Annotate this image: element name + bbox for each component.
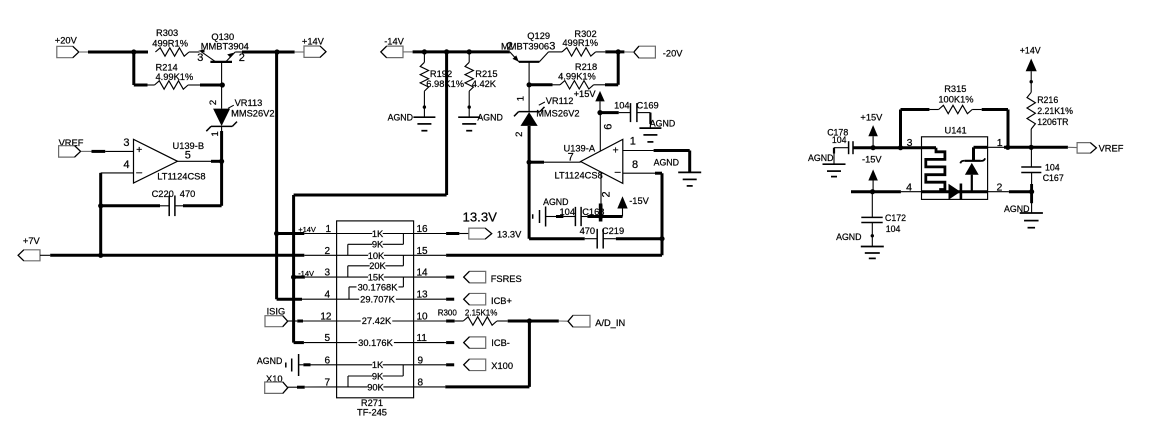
svg-text:MMS26V2: MMS26V2: [231, 108, 274, 118]
svg-text:AGND: AGND: [388, 113, 413, 123]
svg-text:AGND: AGND: [808, 153, 833, 163]
svg-text:13.3V: 13.3V: [497, 230, 522, 240]
svg-text:470: 470: [180, 189, 196, 199]
svg-text:1: 1: [516, 96, 527, 101]
svg-text:C172: C172: [885, 213, 906, 223]
svg-text:2: 2: [507, 41, 513, 53]
svg-text:15K: 15K: [368, 272, 385, 282]
svg-text:2: 2: [601, 191, 613, 197]
svg-text:30.1768K: 30.1768K: [358, 282, 399, 292]
svg-text:-14V: -14V: [384, 36, 404, 46]
svg-text:C220: C220: [152, 189, 174, 199]
svg-text:499R1%: 499R1%: [152, 38, 188, 48]
svg-text:R218: R218: [575, 62, 597, 72]
svg-text:104: 104: [886, 224, 901, 234]
svg-text:+: +: [136, 144, 142, 156]
svg-text:3: 3: [549, 41, 555, 53]
svg-text:–: –: [136, 166, 142, 178]
svg-text:+15V: +15V: [860, 113, 883, 123]
svg-text:+7V: +7V: [23, 236, 41, 246]
svg-text:R303: R303: [156, 28, 178, 38]
svg-text:27.42K: 27.42K: [362, 316, 392, 326]
svg-text:C167: C167: [1043, 173, 1064, 183]
svg-text:2.21K1%: 2.21K1%: [1037, 106, 1073, 116]
svg-text:C169: C169: [637, 101, 659, 111]
svg-text:10K: 10K: [368, 251, 385, 261]
svg-text:104: 104: [614, 101, 630, 111]
svg-text:MMBT3904: MMBT3904: [201, 42, 249, 52]
svg-text:-15V: -15V: [629, 196, 649, 206]
svg-text:1K: 1K: [372, 229, 384, 239]
svg-text:4: 4: [906, 181, 912, 193]
svg-text:+: +: [613, 144, 619, 156]
svg-text:4.99K1%: 4.99K1%: [558, 71, 596, 81]
svg-text:U141: U141: [945, 126, 967, 136]
svg-text:90K: 90K: [367, 382, 384, 392]
svg-text:8: 8: [632, 159, 638, 171]
svg-text:4.42K: 4.42K: [472, 79, 497, 89]
svg-text:29.707K: 29.707K: [360, 294, 395, 304]
svg-text:20K: 20K: [369, 261, 386, 271]
svg-text:104: 104: [832, 135, 847, 145]
svg-text:+15V: +15V: [574, 89, 597, 99]
svg-text:FSRES: FSRES: [491, 274, 522, 284]
svg-text:AGND: AGND: [654, 157, 679, 167]
svg-text:LT1124CS8: LT1124CS8: [157, 172, 205, 182]
svg-text:LT1124CS8: LT1124CS8: [555, 171, 603, 181]
svg-text:X100: X100: [491, 361, 513, 371]
svg-text:3: 3: [907, 137, 913, 149]
svg-text:1206TR: 1206TR: [1037, 117, 1068, 127]
svg-text:30.176K: 30.176K: [358, 338, 393, 348]
svg-text:-15V: -15V: [862, 154, 882, 164]
svg-text:9K: 9K: [372, 371, 384, 381]
svg-text:5: 5: [185, 149, 191, 161]
svg-text:2.15K1%: 2.15K1%: [465, 309, 497, 318]
svg-text:9K: 9K: [372, 240, 384, 250]
svg-text:R300: R300: [438, 309, 458, 318]
svg-text:6: 6: [602, 124, 614, 130]
svg-text:1: 1: [630, 136, 636, 148]
svg-text:2: 2: [239, 52, 245, 64]
svg-text:R192: R192: [430, 69, 452, 79]
svg-text:R315: R315: [944, 84, 966, 94]
svg-text:2: 2: [208, 100, 219, 105]
svg-text:104: 104: [560, 207, 576, 217]
svg-text:2: 2: [514, 132, 525, 137]
svg-text:R215: R215: [475, 69, 497, 79]
svg-text:VR113: VR113: [235, 98, 263, 108]
svg-text:4: 4: [123, 159, 129, 171]
svg-text:AGND: AGND: [836, 232, 861, 242]
svg-text:1K: 1K: [372, 360, 384, 370]
svg-text:MMS26V2: MMS26V2: [536, 109, 579, 119]
svg-text:-20V: -20V: [663, 49, 683, 59]
svg-text:TF-245: TF-245: [357, 407, 387, 417]
svg-text:R214: R214: [156, 62, 178, 72]
svg-text:499R1%: 499R1%: [562, 38, 598, 48]
svg-text:4.99K1%: 4.99K1%: [156, 72, 194, 82]
svg-text:ICB+: ICB+: [491, 296, 512, 306]
svg-text:100K1%: 100K1%: [938, 95, 973, 105]
svg-text:–: –: [615, 166, 621, 178]
svg-text:470: 470: [580, 226, 596, 236]
svg-text:ICB-: ICB-: [491, 338, 510, 348]
svg-text:+14V: +14V: [302, 37, 325, 47]
svg-text:A/D_IN: A/D_IN: [595, 318, 625, 328]
svg-text:104: 104: [1045, 162, 1060, 172]
svg-text:R216: R216: [1037, 95, 1058, 105]
svg-text:AGND: AGND: [477, 113, 502, 123]
svg-text:C219: C219: [602, 226, 624, 236]
svg-text:AGND: AGND: [650, 118, 675, 128]
svg-text:AGND: AGND: [543, 197, 568, 207]
svg-text:1: 1: [210, 131, 221, 136]
svg-text:+20V: +20V: [55, 36, 78, 46]
svg-text:3: 3: [123, 137, 129, 149]
svg-text:AGND: AGND: [257, 356, 282, 366]
svg-text:Q129: Q129: [527, 31, 550, 41]
svg-text:+14V: +14V: [1020, 45, 1041, 55]
svg-text:13.3V: 13.3V: [463, 210, 498, 225]
svg-text:VREF: VREF: [1099, 144, 1124, 154]
svg-text:3: 3: [197, 52, 203, 64]
svg-text:VR112: VR112: [546, 96, 574, 106]
